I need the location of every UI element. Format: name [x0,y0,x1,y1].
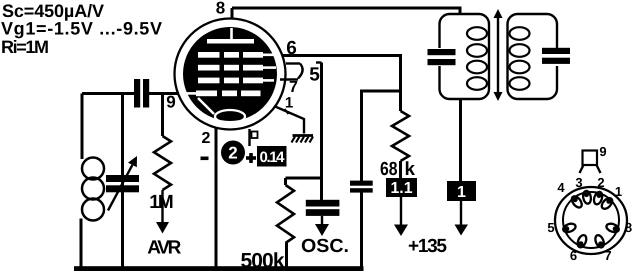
plus sign [246,156,256,160]
svg-text:5: 5 [547,220,554,235]
wire grid1 horizontal left [82,92,134,95]
tube grid row 1 [198,52,263,58]
tube grid row 4 [196,91,261,97]
svg-text:1: 1 [285,95,293,112]
ground [292,136,314,143]
capacitor C1 coupling [134,79,140,108]
box 0.14 [257,146,287,167]
svg-text:7: 7 [289,79,298,96]
tuning arrow double [497,16,499,95]
battery circle 2 [221,141,245,165]
capacitor C4 series [350,181,373,186]
svg-text:9: 9 [166,93,175,112]
svg-text:k: k [405,159,416,180]
wire branch y91 [362,91,401,181]
transformer T1 secondary loop [508,14,558,99]
wire pin1 to ground [274,106,304,134]
inductor L1 [82,158,104,221]
svg-text:1M: 1M [149,192,174,213]
box 1.1 [386,178,417,197]
svg-text:Ri=1M: Ri=1M [1,37,49,57]
wire pin5 link to osc line [316,61,322,63]
wire pin5 [286,62,300,64]
svg-text:9: 9 [599,144,606,159]
socket inner circle [563,192,619,248]
OSC arrow [321,216,323,225]
svg-text:2: 2 [597,175,604,190]
svg-text:8: 8 [625,220,632,235]
tube U1 inner electrode disc [183,27,277,121]
wire pin7 [280,78,298,80]
svg-text:1: 1 [457,184,466,201]
tube grid row 3 [198,78,263,84]
svg-text:3: 3 [575,175,582,190]
arrow +135 [400,197,402,226]
bracket pin5/7 [298,64,303,79]
wire pin2 down [215,128,218,268]
svg-text:68: 68 [380,159,398,180]
wire C4 to bus [360,193,363,269]
svg-text:2: 2 [202,130,211,147]
svg-text:+135: +135 [408,236,447,257]
transformer T1 primary loop [440,14,490,99]
resistor R2 500k [284,178,287,185]
minus sign [201,157,209,161]
wire osc line down [320,63,323,201]
wire filament pin [248,129,250,146]
svg-text:Vg1=-1.5V ...-9.5V: Vg1=-1.5V ...-9.5V [1,19,162,39]
wire left down to coil [81,94,84,160]
tube white connector lines [185,55,276,114]
primary winding ellipses [467,27,487,90]
resistor R3 68k [392,111,409,161]
svg-text:1: 1 [615,184,622,199]
svg-text:0.14: 0.14 [260,149,286,166]
svg-text:4: 4 [557,180,565,195]
svg-text:AVR: AVR [147,238,181,259]
wire top horizontal to transformer [232,8,460,15]
socket top cap square [583,151,598,166]
svg-text:2: 2 [228,144,237,163]
box 1 [447,181,476,201]
tick at pin1 [285,109,289,114]
wire pin8 vertical [231,8,234,19]
capacitor C6 secondary [542,48,570,54]
wire pin6 to 68k [282,56,401,112]
arrow below box 1 [460,201,462,226]
socket outer circle [555,187,627,254]
secondary winding ellipses [510,27,530,90]
variable capacitor arrow [108,165,132,211]
tube U1 envelope [175,19,286,130]
wire 500k top [286,177,322,180]
svg-text:8: 8 [216,0,225,18]
ground bus [74,266,364,271]
small loop rect [252,132,258,139]
wire C1 to pin9 [149,92,179,95]
svg-text:6: 6 [570,248,577,263]
tube cathode ellipse [215,110,245,123]
svg-text:1.1: 1.1 [391,180,413,197]
tube top lead white [230,28,233,39]
svg-text:OSC.: OSC. [301,236,349,257]
svg-text:7: 7 [604,248,611,263]
wire primary to box 1 [459,99,462,181]
resistor R1 1M [161,94,164,137]
svg-text:5: 5 [309,65,320,86]
capacitor C5 primary [428,49,456,55]
socket flare [580,165,584,173]
wire coil to bus [80,219,83,269]
wire tuning cap branch [121,94,124,269]
tube anode top bar [207,39,254,44]
socket pins [562,190,620,248]
tube grid row 2 [198,65,263,71]
variable capacitor C2 plates [106,175,139,182]
capacitor C3 OSC plates [306,200,340,207]
